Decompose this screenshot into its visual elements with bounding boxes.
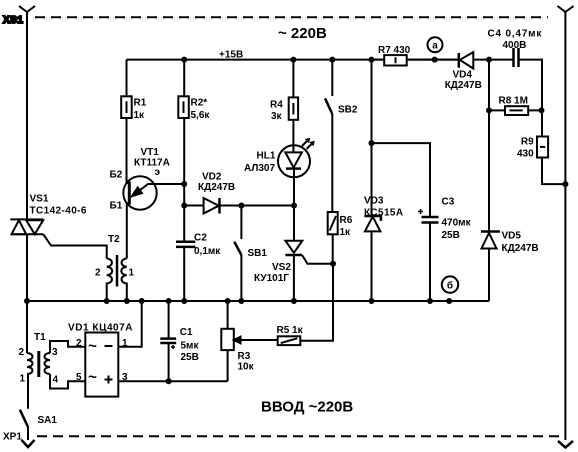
node a [428,37,443,62]
svg-text:2: 2 [19,347,25,358]
border dashed bottom [37,435,560,437]
svg-text:25В: 25В [442,230,460,241]
resistor R6 [328,212,353,264]
connector XP1 right pin [558,6,574,448]
svg-text:КУ101Г: КУ101Г [254,273,289,284]
svg-text:SB1: SB1 [248,248,268,259]
svg-text:+15В: +15В [219,50,243,61]
svg-text:КД247В: КД247В [445,80,482,91]
thyristor VS2 [254,206,334,302]
svg-text:VD2: VD2 [202,172,222,183]
svg-text:Б1: Б1 [110,201,123,212]
resistor R8 [486,96,545,116]
svg-text:5,6к: 5,6к [191,110,211,121]
svg-text:VD4: VD4 [453,70,473,81]
svg-text:XS1: XS1 [3,15,23,26]
node HL1 bottom junction [291,203,297,209]
svg-text:R6: R6 [340,215,353,226]
svg-text:КС515А: КС515А [364,208,404,219]
svg-text:АЛ307: АЛ307 [244,163,275,174]
bridge rectifier VD1 [68,301,228,397]
svg-text:470мк: 470мк [442,218,472,229]
resistor R9 [517,137,568,188]
svg-text:VT1: VT1 [141,147,160,158]
potentiometer R3 [221,301,277,381]
svg-text:R3: R3 [238,351,251,362]
resistor R1 [121,60,147,121]
switch SA1 [20,374,57,440]
svg-text:5: 5 [76,372,82,383]
svg-text:С3: С3 [442,197,455,208]
svg-text:VD5: VD5 [502,231,522,242]
wire gate node down to R5 [300,264,333,341]
triac VS1 [10,194,87,235]
resistor R2 [178,60,210,121]
svg-text:0,1мк: 0,1мк [194,246,221,257]
diode VD2 [184,172,294,214]
svg-text:2: 2 [76,338,82,349]
svg-text:R8 1М: R8 1М [499,96,528,107]
node b [442,276,458,304]
node VD2 left junction [181,203,187,209]
svg-text:ТС142-40-6: ТС142-40-6 [30,206,87,217]
svg-text:1: 1 [20,374,26,385]
svg-text:3: 3 [122,372,128,383]
resistor R4 [270,60,298,122]
svg-text:25В: 25В [181,352,199,363]
node gate junction [330,261,336,267]
pushbutton SB1 [234,206,267,302]
svg-text:1к: 1к [134,110,146,121]
svg-text:R9: R9 [521,137,534,148]
svg-text:430: 430 [517,149,534,160]
svg-text:1: 1 [129,268,135,279]
svg-text:КТ117А: КТ117А [134,158,170,169]
wire +15V rail [127,59,459,61]
svg-text:R1: R1 [134,98,147,109]
svg-text:SB2: SB2 [338,105,358,116]
svg-text:VD1 КЦ407А: VD1 КЦ407А [68,323,133,334]
svg-text:КД247В: КД247В [198,182,235,193]
svg-text:3к: 3к [271,111,283,122]
svg-text:С1: С1 [180,327,193,338]
capacitor C3 [418,197,472,302]
transformer T1 [19,301,86,389]
svg-text:Т2: Т2 [108,234,120,245]
diode VD5 [481,231,539,302]
svg-text:XP1: XP1 [3,432,22,443]
svg-text:R4: R4 [270,100,283,111]
wire VD4-C4 junction down [488,60,490,232]
svg-text:С4 0,47мк: С4 0,47мк [488,29,543,40]
capacitor C1 [160,301,199,384]
svg-text:400В: 400В [503,40,527,51]
svg-text:э: э [155,167,161,178]
wire left vertical below VS1 [26,234,28,301]
resistor R7 [372,45,459,66]
svg-text:HL1: HL1 [257,151,276,162]
LED HL1 [244,120,315,206]
svg-text:~: ~ [88,369,97,386]
zener VD3 [364,196,404,302]
border dashed top [35,16,548,18]
node emitter junction [181,181,187,187]
node SB1 top junction [238,203,244,209]
connector XP1 arrow [3,432,35,448]
wire node to C3 top [372,143,431,217]
pushbutton SB2 [325,60,358,212]
svg-text:2: 2 [95,268,101,279]
svg-text:VS1: VS1 [30,194,49,205]
connector XS1 [19,6,35,219]
svg-text:~: ~ [88,338,97,355]
svg-text:б: б [447,280,453,292]
svg-text:3: 3 [52,347,58,358]
wire bottom bus [27,300,489,302]
svg-text:1к: 1к [340,227,352,238]
svg-text:10к: 10к [238,362,255,373]
svg-text:1: 1 [122,338,128,349]
capacitor C2 [176,206,221,302]
wire SB2/R7 node down to VD3 [371,60,373,216]
svg-text:VD3: VD3 [364,196,384,207]
transformer T2 [95,234,135,301]
svg-text:а: а [432,41,438,52]
svg-text:ВВОД ~220В: ВВОД ~220В [261,399,353,416]
diode VD4 [445,52,482,91]
transistor VT1 [110,118,185,259]
svg-text:VS2: VS2 [272,262,291,273]
svg-text:С2: С2 [194,233,207,244]
svg-text:4: 4 [53,375,59,386]
svg-text:5мк: 5мк [181,341,200,352]
wire VS1 gate to T2 [43,234,106,258]
capacitor C4 [473,29,542,137]
svg-text:КД247В: КД247В [502,243,539,254]
resistor R5 [277,325,304,345]
node bus junctions [24,298,433,304]
svg-text:R2*: R2* [191,98,208,109]
svg-text:~ 220В: ~ 220В [278,25,327,42]
svg-text:SA1: SA1 [38,415,58,426]
svg-text:R7 430: R7 430 [378,45,411,56]
svg-text:Б2: Б2 [110,170,123,181]
wire R2 to emitter node [183,118,185,206]
svg-text:Т1: Т1 [34,332,46,343]
node rail junctions [181,57,335,63]
svg-text:R5 1к: R5 1к [277,325,304,336]
